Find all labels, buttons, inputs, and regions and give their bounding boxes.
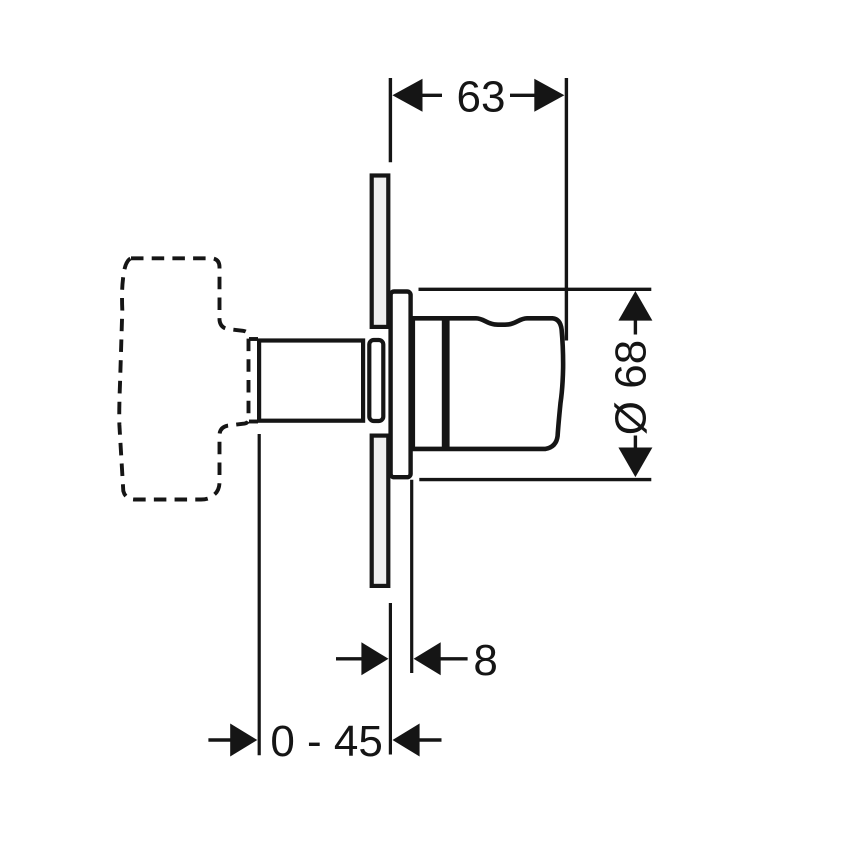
dim diameter 68: down arrowhead: [618, 448, 652, 478]
valve stem: [259, 341, 363, 421]
dashed connector stem top: [249, 337, 258, 341]
dim diameter 68: up arrowhead: [618, 291, 652, 321]
dim 8: right tail line: [439, 657, 468, 660]
dim 0-45: left extension line (stem end): [258, 434, 261, 755]
hub (sleeve flange, side view of round escutcheon): [391, 292, 411, 478]
dim 0-45: right arrowhead: [393, 724, 420, 757]
dim 8: left extension line (plate face, shared with 0-45): [389, 603, 392, 755]
dim 8: left tail line: [336, 657, 364, 660]
dim 63: left tail line: [421, 94, 442, 97]
dim 63: left extension line (plate face): [389, 78, 392, 162]
dim 8: right extension line (hub face): [410, 480, 413, 673]
dim diameter 68: lower shaft: [634, 436, 637, 450]
dim diameter 68: top extension line: [419, 288, 652, 291]
svg-text:63: 63: [457, 73, 506, 122]
dim diameter 68: upper shaft: [634, 319, 637, 335]
dim 63: left arrowhead: [392, 79, 422, 112]
dashed handle outline (wall-side concealed body): [119, 258, 248, 499]
dim 8: right arrowhead: [414, 642, 441, 675]
stem collar capsule: [369, 340, 383, 421]
dim 0-45: right tail line: [418, 738, 442, 741]
dim 63: right extension line (handle front): [565, 78, 568, 341]
svg-text:0 - 45: 0 - 45: [270, 717, 383, 766]
dim diameter 68: bottom extension line: [419, 478, 651, 481]
escutcheon plate upper segment: [372, 176, 389, 327]
escutcheon plate lower segment: [372, 436, 389, 586]
handle body: [413, 318, 563, 449]
dim 0-45: left arrowhead: [230, 724, 257, 757]
svg-text:Ø 68: Ø 68: [607, 340, 656, 435]
dim 8: left arrowhead: [361, 642, 388, 675]
dim 63: right tail line: [510, 94, 535, 97]
svg-text:8: 8: [473, 636, 497, 685]
dashed connector stem bottom: [249, 420, 258, 424]
dim 0-45: left tail line: [208, 738, 231, 741]
dim 63: right arrowhead: [534, 79, 564, 112]
handle base band: [442, 317, 450, 450]
